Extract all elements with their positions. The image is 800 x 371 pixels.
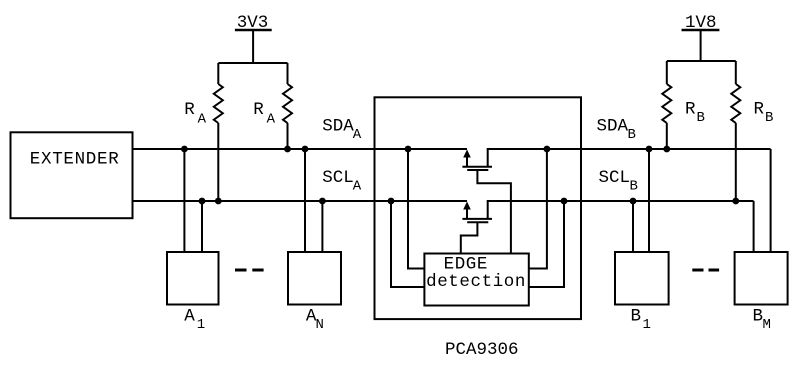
junction dot SCL/RB2 [732, 198, 739, 205]
wire SDA sense left into edge detection [408, 149, 424, 269]
transistor Q1 (SDA pass FET) source arrow [463, 150, 471, 168]
junction dot SDA/RA2 [284, 146, 291, 153]
resistor RB1 (left pull-up, 1V8 to SDA_B) [662, 61, 671, 149]
junction dot SCL/edge-left [388, 198, 395, 205]
wire SDA sense right into edge detection [529, 149, 547, 269]
svg-text:PCA9306: PCA9306 [445, 340, 519, 360]
wire 1V8 stem [700, 30, 702, 61]
wire SCL drop to A1 [201, 201, 203, 252]
wire SCL sense left into edge detection [391, 201, 424, 287]
transistor Q1 gate bar [467, 169, 488, 171]
EXTENDER box [11, 132, 133, 218]
svg-text:B: B [697, 110, 705, 126]
svg-text:B: B [630, 179, 638, 195]
resistor RA1 (left pull-up, 3V3 to SCL_A) [214, 63, 223, 201]
junction dot SDA/edge-left [405, 146, 412, 153]
power rail 3V3 bar [235, 29, 272, 32]
wire Q2 gate to edge detection [461, 222, 478, 253]
svg-text:B: B [631, 307, 642, 327]
svg-text:SCL: SCL [599, 168, 631, 188]
wire 3V3 rail horizontal [218, 62, 287, 64]
svg-text:B: B [765, 110, 773, 126]
junction dot SDA/AN [302, 146, 309, 153]
junction dot SDA/edge-right [544, 146, 551, 153]
wire SCL bus left segment [133, 200, 468, 202]
svg-text:A: A [353, 179, 362, 195]
wire SCL drop to AN [321, 201, 323, 252]
device box BM [735, 252, 788, 305]
PCA9306 outline box U1 [375, 97, 582, 319]
device box AN [288, 252, 341, 305]
junction dot SDA/B1 [646, 146, 653, 153]
transistor Q1 drain lead [487, 149, 489, 167]
transistor Q2 drain lead [487, 201, 489, 219]
svg-text:detection: detection [426, 272, 526, 292]
transistor Q1 channel [462, 166, 492, 168]
transistor Q2 channel [462, 218, 492, 220]
wire SDA drop to A1 [183, 149, 185, 252]
svg-text:N: N [316, 317, 324, 333]
junction dot SCL/RA1 [215, 198, 222, 205]
junction dot SCL/A1 [199, 198, 206, 205]
EDGE detection box [424, 254, 528, 306]
wire SDA corner drop to BM [770, 149, 772, 252]
wire SCL bus right segment [487, 200, 754, 202]
svg-text:M: M [763, 317, 771, 333]
svg-text:SCL: SCL [322, 168, 354, 188]
svg-text:A: A [184, 307, 195, 327]
wire SCL sense right into edge detection [529, 201, 564, 287]
svg-text:R: R [253, 100, 264, 120]
svg-text:SDA: SDA [322, 116, 354, 136]
wire SDA bus left segment [133, 148, 468, 150]
wire SCL drop to B1 [632, 201, 634, 252]
device box B1 [615, 252, 669, 305]
svg-text:B: B [753, 307, 764, 327]
ellipsis dashes between B1 and BM [692, 269, 719, 272]
junction dot SCL/edge-right [561, 198, 568, 205]
svg-text:A: A [267, 112, 276, 128]
svg-text:A: A [353, 127, 362, 143]
transistor Q2 (SCL pass FET) source arrow [463, 202, 471, 220]
ellipsis dashes between A1 and AN [235, 269, 264, 272]
wire SDA bus right segment [487, 148, 771, 150]
svg-text:R: R [184, 100, 195, 120]
svg-text:SDA: SDA [597, 116, 629, 136]
svg-text:R: R [685, 100, 696, 120]
junction dot SDA/RB1 [663, 146, 670, 153]
device box A1 [167, 252, 219, 305]
resistor RB2 (right pull-up, 1V8 to SCL_B) [731, 61, 740, 201]
power rail 1V8 bar [682, 29, 720, 32]
wire Q1 gate to edge detection [477, 170, 511, 254]
svg-text:B: B [628, 127, 636, 143]
junction dot SDA/A1 [181, 146, 188, 153]
junction dot SCL/B1 [630, 198, 637, 205]
svg-text:1: 1 [197, 317, 205, 333]
svg-text:R: R [754, 100, 765, 120]
wire 1V8 rail horizontal [667, 60, 736, 62]
wire SDA drop to AN [304, 149, 306, 252]
wire SDA drop to B1 [648, 149, 650, 252]
svg-text:EXTENDER: EXTENDER [30, 149, 120, 169]
resistor RA2 (right pull-up, 3V3 to SDA_A) [283, 63, 292, 149]
svg-text:1: 1 [643, 317, 651, 333]
svg-text:A: A [198, 112, 207, 128]
wire 3V3 stem [252, 30, 254, 63]
junction dot SCL/AN [319, 198, 326, 205]
wire SCL corner drop to BM [753, 201, 755, 252]
transistor Q2 gate bar [467, 221, 488, 223]
